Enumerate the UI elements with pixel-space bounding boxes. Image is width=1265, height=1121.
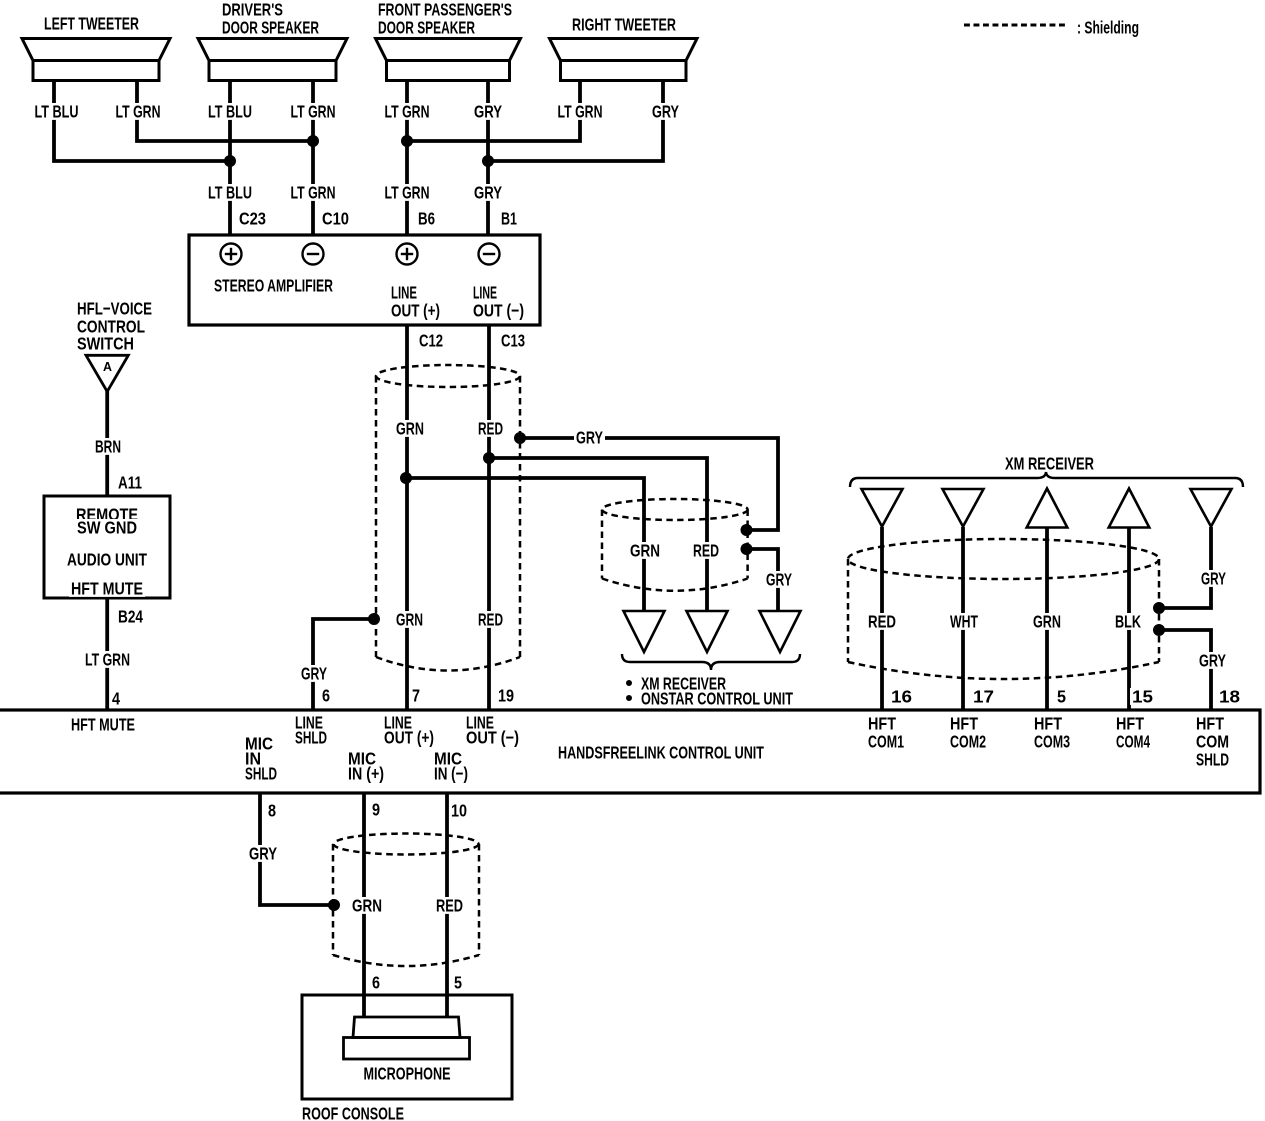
svg-text:HFT MUTE: HFT MUTE (71, 714, 135, 734)
svg-text:B6: B6 (418, 208, 435, 228)
svg-text:GRN: GRN (396, 609, 423, 629)
svg-text:15: 15 (1132, 686, 1153, 706)
svg-text:6: 6 (372, 972, 380, 992)
svg-text:DOOR SPEAKER: DOOR SPEAKER (378, 17, 475, 37)
svg-text:COM: COM (1196, 731, 1229, 751)
svg-text:LT BLU: LT BLU (208, 101, 252, 121)
svg-text:HANDSFREELINK CONTROL UNIT: HANDSFREELINK CONTROL UNIT (558, 742, 764, 762)
svg-text:6: 6 (322, 685, 330, 705)
svg-text:A11: A11 (118, 472, 142, 492)
svg-text:GRY: GRY (1201, 568, 1226, 588)
svg-text:OUT (+): OUT (+) (384, 727, 434, 747)
svg-text:IN (−): IN (−) (434, 763, 468, 783)
svg-text:A: A (103, 360, 112, 374)
svg-text:7: 7 (412, 685, 420, 705)
svg-text:4: 4 (112, 688, 120, 708)
svg-text:GRY: GRY (576, 427, 603, 447)
svg-text:17: 17 (973, 686, 994, 706)
svg-text:LT BLU: LT BLU (208, 182, 252, 202)
svg-text:LT GRN: LT GRN (385, 182, 430, 202)
svg-text:GRY: GRY (249, 843, 277, 863)
svg-text:10: 10 (451, 800, 467, 820)
svg-text:LT GRN: LT GRN (291, 101, 336, 121)
svg-text:GRY: GRY (766, 569, 792, 589)
svg-text:SW GND: SW GND (77, 517, 137, 537)
svg-text:LT GRN: LT GRN (85, 649, 130, 669)
svg-text:OUT (+): OUT (+) (391, 300, 440, 320)
svg-text:ONSTAR CONTROL UNIT: ONSTAR CONTROL UNIT (641, 688, 793, 708)
svg-text:GRN: GRN (396, 418, 424, 438)
svg-text:HFT: HFT (950, 713, 978, 733)
svg-text:RED: RED (478, 609, 503, 629)
svg-text:GRY: GRY (301, 663, 327, 683)
svg-text:SWITCH: SWITCH (77, 333, 134, 353)
svg-text:GRN: GRN (630, 540, 660, 560)
svg-text:: Shielding: : Shielding (1077, 17, 1139, 37)
svg-text:GRY: GRY (474, 101, 502, 121)
svg-text:LINE: LINE (391, 282, 417, 302)
svg-text:SHLD: SHLD (1196, 749, 1229, 769)
svg-text:HFT: HFT (1034, 713, 1062, 733)
svg-text:RIGHT TWEETER: RIGHT TWEETER (572, 14, 676, 34)
svg-text:LT BLU: LT BLU (35, 101, 79, 121)
svg-text:RED: RED (868, 611, 896, 631)
svg-text:16: 16 (891, 686, 912, 706)
svg-text:MICROPHONE: MICROPHONE (364, 1063, 451, 1083)
svg-text:HFL−VOICE: HFL−VOICE (77, 298, 152, 318)
svg-text:LT GRN: LT GRN (116, 101, 161, 121)
svg-text:HFT: HFT (868, 713, 896, 733)
svg-text:B1: B1 (501, 208, 517, 228)
svg-text:RED: RED (693, 540, 719, 560)
svg-text:18: 18 (1219, 686, 1240, 706)
svg-text:RED: RED (478, 418, 503, 438)
svg-text:19: 19 (498, 685, 514, 705)
svg-text:STEREO AMPLIFIER: STEREO AMPLIFIER (214, 275, 333, 295)
svg-text:GRY: GRY (474, 182, 502, 202)
svg-text:9: 9 (372, 799, 380, 819)
svg-text:GRN: GRN (352, 895, 382, 915)
svg-text:LT GRN: LT GRN (385, 101, 430, 121)
svg-text:COM3: COM3 (1034, 731, 1070, 751)
svg-text:OUT (−): OUT (−) (473, 300, 524, 320)
svg-text:COM2: COM2 (950, 731, 986, 751)
svg-text:BRN: BRN (95, 436, 121, 456)
svg-text:ROOF CONSOLE: ROOF CONSOLE (302, 1103, 404, 1121)
svg-text:HFT: HFT (1116, 713, 1144, 733)
svg-text:LT GRN: LT GRN (291, 182, 336, 202)
svg-text:OUT (−): OUT (−) (466, 727, 519, 747)
svg-text:RED: RED (436, 895, 463, 915)
svg-text:COM1: COM1 (868, 731, 904, 751)
svg-text:GRY: GRY (1199, 650, 1226, 670)
svg-text:COM4: COM4 (1116, 731, 1150, 751)
svg-text:C12: C12 (419, 330, 443, 350)
svg-text:HFT: HFT (1196, 713, 1224, 733)
svg-text:AUDIO UNIT: AUDIO UNIT (67, 549, 147, 569)
svg-text:DOOR SPEAKER: DOOR SPEAKER (222, 17, 319, 37)
svg-text:5: 5 (454, 972, 462, 992)
svg-text:5: 5 (1057, 686, 1066, 706)
svg-text:LEFT TWEETER: LEFT TWEETER (44, 13, 139, 33)
svg-text:LINE: LINE (473, 282, 497, 302)
svg-text:C23: C23 (239, 208, 266, 228)
svg-text:IN (+): IN (+) (348, 763, 384, 783)
svg-text:C13: C13 (501, 330, 525, 350)
svg-text:GRN: GRN (1033, 611, 1061, 631)
svg-text:8: 8 (268, 800, 276, 820)
svg-text:BLK: BLK (1115, 611, 1141, 631)
svg-text:SHLD: SHLD (245, 763, 277, 783)
svg-text:B24: B24 (118, 606, 143, 626)
svg-text:XM RECEIVER: XM RECEIVER (1005, 453, 1094, 473)
svg-text:WHT: WHT (950, 611, 978, 631)
svg-text:LT GRN: LT GRN (558, 101, 603, 121)
svg-text:HFT MUTE: HFT MUTE (71, 578, 143, 598)
svg-text:GRY: GRY (652, 101, 679, 121)
svg-text:SHLD: SHLD (295, 727, 327, 747)
svg-text:C10: C10 (322, 208, 349, 228)
